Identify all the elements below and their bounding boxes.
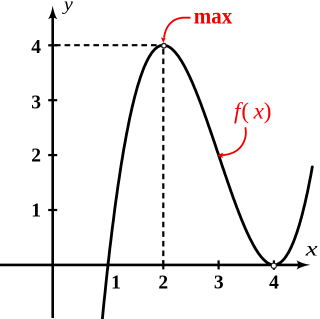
svg-text:2: 2 [158,272,168,293]
svg-text:f(x): f(x) [234,98,271,123]
svg-text:3: 3 [31,92,41,113]
svg-text:1: 1 [31,201,41,222]
svg-text:3: 3 [214,272,224,293]
svg-text:4: 4 [269,272,279,293]
svg-text:y: y [62,0,74,15]
svg-text:2: 2 [31,146,41,167]
svg-text:x: x [305,237,318,261]
svg-text:1: 1 [111,272,121,293]
svg-text:max: max [194,3,233,29]
svg-text:4: 4 [31,37,41,58]
